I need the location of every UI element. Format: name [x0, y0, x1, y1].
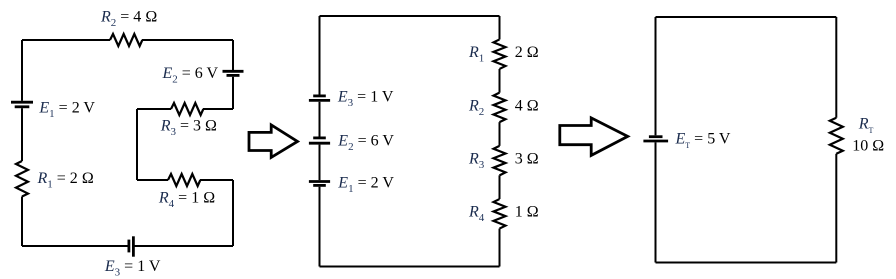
wire: right circuit right vertical (bottom) [835, 154, 837, 263]
svg-text:R4: R4 [468, 204, 485, 225]
battery E3 long plate [132, 236, 135, 256]
svg-text:1 Ω: 1 Ω [515, 204, 539, 221]
wire: middle circuit right vertical (R2-R3) [499, 122, 501, 146]
resistor R1 (vertical zigzag, left circuit) [16, 161, 28, 197]
wire: right circuit right vertical (top) [835, 17, 837, 118]
resistor R4 (middle circuit, vertical zigzag) [494, 199, 506, 229]
wire: left circuit top-left horizontal segment [22, 39, 110, 41]
resistor R3 (zigzag) [171, 103, 203, 115]
battery E2 long plate (middle circuit) [309, 142, 330, 145]
wire: R4 row left stub [137, 179, 168, 181]
wire: R3 row right stub [203, 108, 233, 110]
wire: left circuit bottom left segment [22, 245, 128, 247]
wire: middle circuit left vertical (E3-E2) [319, 102, 321, 137]
wire: middle circuit top horizontal [320, 15, 500, 17]
svg-text:E2 = 6 V: E2 = 6 V [162, 65, 219, 86]
resistor R1 (middle circuit, vertical zigzag) [494, 39, 506, 69]
battery E1 short plate [15, 105, 30, 108]
wire: right circuit top horizontal [656, 16, 837, 18]
resistor R3 (middle circuit, vertical zigzag) [494, 146, 506, 176]
svg-text:R4 = 1 Ω: R4 = 1 Ω [158, 190, 215, 211]
wire: left circuit left vertical (middle) [21, 108, 23, 161]
svg-text:2 Ω: 2 Ω [515, 44, 539, 61]
wire: left circuit bottom right segment [134, 245, 233, 247]
wire: left circuit right vertical (below E2 to R3 row) [232, 77, 234, 109]
svg-text:ET = 5 V: ET = 5 V [675, 130, 731, 150]
battery E1 long plate [11, 101, 33, 104]
arrow 2 (block arrow between middle and right circuits) [560, 118, 628, 155]
wire: left circuit right vertical (top, above E2) [232, 40, 234, 70]
svg-text:3 Ω: 3 Ω [515, 151, 539, 168]
svg-text:R2 = 4 Ω: R2 = 4 Ω [100, 9, 157, 30]
wire: left circuit left vertical (upper) [21, 40, 23, 101]
wire: middle circuit right vertical (top) [499, 16, 501, 39]
svg-text:R2: R2 [468, 97, 484, 118]
wire: middle circuit left vertical (top) [319, 16, 321, 267]
battery ET long plate [643, 140, 668, 143]
wire: R3 row left stub [137, 108, 171, 110]
wire: middle circuit right vertical (bottom) [499, 229, 501, 267]
wire: inner vertical segment [136, 109, 138, 180]
battery E3 short plate [127, 240, 130, 253]
svg-text:RT: RT [858, 115, 874, 135]
wire: left circuit top-right horizontal segment [142, 39, 233, 41]
arrow 1 (block arrow between left and middle circuits) [249, 125, 298, 157]
svg-text:E3 = 1 V: E3 = 1 V [337, 88, 394, 109]
battery E1 short plate (middle circuit) [313, 184, 326, 187]
wire: middle circuit right vertical (R3-R4) [499, 175, 501, 199]
battery ET short plate [649, 135, 663, 138]
resistor R2 (middle circuit, vertical zigzag) [494, 93, 506, 123]
svg-text:4 Ω: 4 Ω [515, 97, 539, 114]
svg-text:R1: R1 [468, 44, 484, 64]
battery E3 long plate (middle circuit) [309, 99, 330, 102]
battery E2 short plate [227, 74, 240, 77]
battery E2 long plate [223, 70, 244, 73]
wire: right circuit bottom horizontal [656, 262, 837, 264]
wire: right circuit left vertical (bottom) [655, 142, 657, 262]
resistor R4 (zigzag) [168, 174, 200, 186]
resistor RT (vertical zigzag, right circuit) [830, 118, 843, 154]
svg-text:E1 = 2 V: E1 = 2 V [337, 175, 394, 196]
svg-text:E1 = 2 V: E1 = 2 V [38, 99, 95, 120]
svg-text:R3 = 3 Ω: R3 = 3 Ω [160, 118, 217, 139]
resistor R2 (zigzag, left circuit top) [110, 34, 142, 46]
wire: middle circuit right vertical (R1-R2) [499, 69, 501, 93]
wire: left circuit left vertical (lower) [21, 197, 23, 247]
svg-text:R3: R3 [468, 151, 485, 172]
svg-text:R1 = 2 Ω: R1 = 2 Ω [37, 170, 94, 191]
svg-text:10 Ω: 10 Ω [852, 138, 884, 155]
wire: middle circuit left vertical (E2-E1) [319, 145, 321, 181]
battery E3 short plate (middle circuit) [313, 95, 326, 98]
wire: R4 row right stub [200, 179, 233, 181]
wire: middle circuit bottom horizontal [320, 266, 500, 268]
svg-text:E2 = 6 V: E2 = 6 V [337, 133, 394, 154]
svg-text:E3 = 1 V: E3 = 1 V [104, 258, 161, 279]
wire: right circuit left vertical (top) [655, 17, 657, 135]
wire: left circuit right vertical (lower) [232, 180, 234, 246]
battery E1 long plate (middle circuit) [309, 180, 330, 183]
battery E2 short plate (middle circuit) [313, 136, 326, 139]
